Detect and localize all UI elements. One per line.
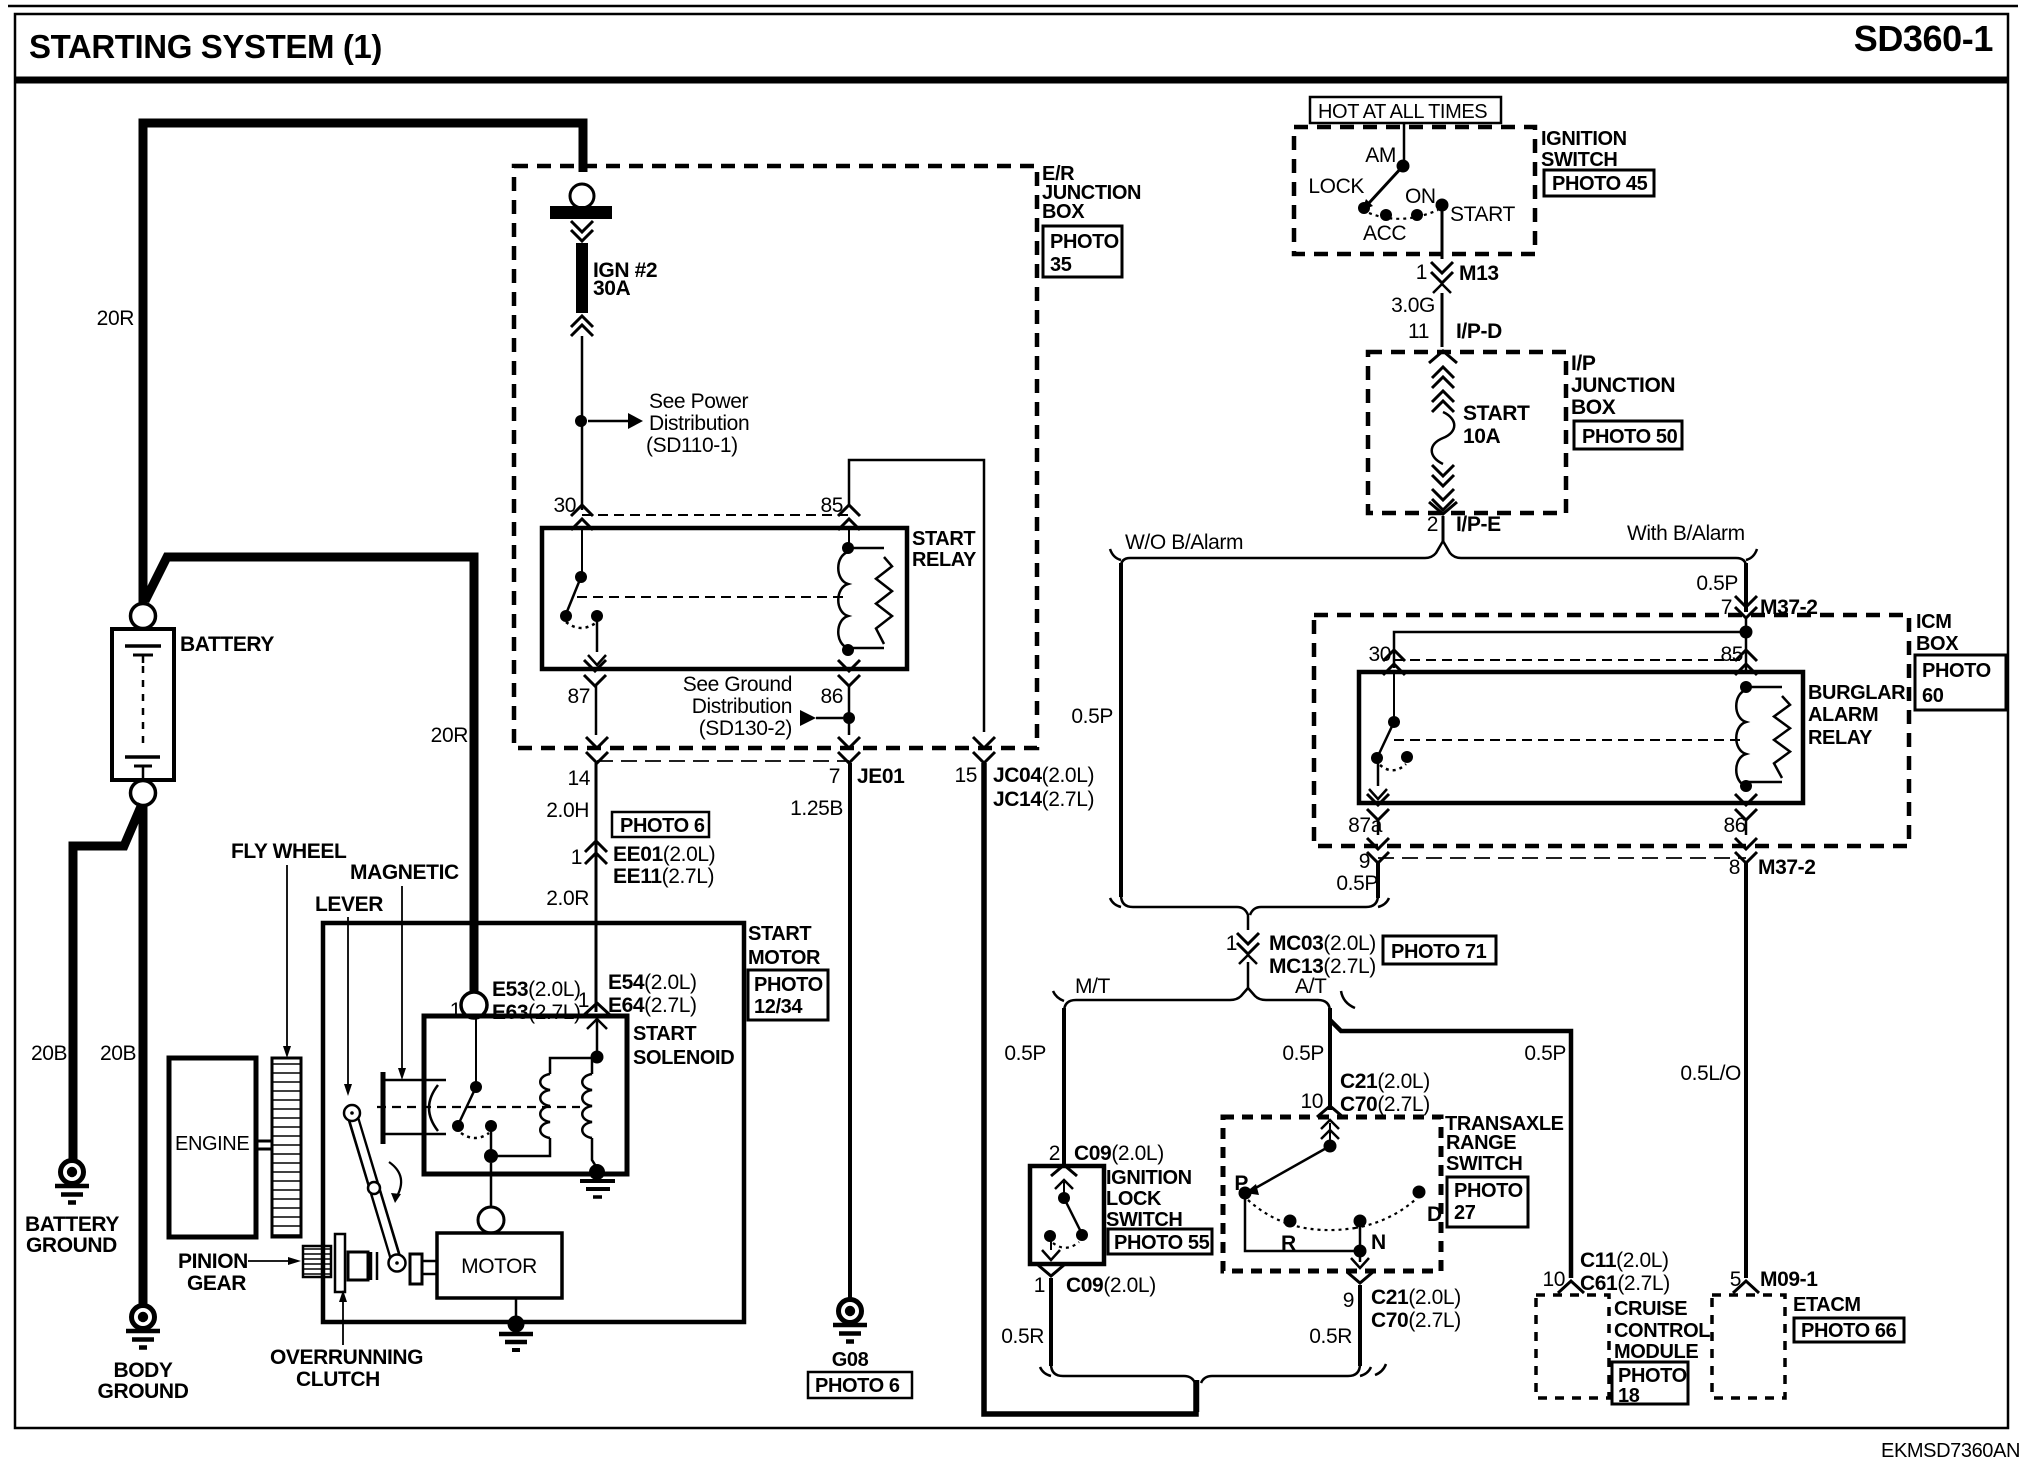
svg-text:86: 86 bbox=[1723, 814, 1746, 837]
svg-text:1: 1 bbox=[1416, 261, 1427, 284]
svg-text:With B/Alarm: With B/Alarm bbox=[1627, 522, 1745, 545]
solenoid switch bbox=[452, 1018, 498, 1163]
wire 20R branch to start solenoid bbox=[145, 557, 474, 995]
svg-text:JC04(2.0L): JC04(2.0L) bbox=[993, 764, 1094, 787]
svg-text:W/O B/Alarm: W/O B/Alarm bbox=[1125, 531, 1243, 554]
burglar relay dashed link top bbox=[1394, 659, 1746, 661]
label FLY WHEEL bbox=[231, 840, 347, 1058]
label E53/E63 bbox=[492, 978, 581, 1024]
label 20R branch bbox=[431, 724, 469, 747]
motor MOTOR box bbox=[437, 1233, 562, 1298]
svg-text:7: 7 bbox=[829, 765, 840, 788]
svg-text:N: N bbox=[1371, 1231, 1386, 1254]
magnetic core bracket bbox=[383, 1072, 446, 1144]
svg-text:(SD130-2): (SD130-2) bbox=[699, 717, 792, 740]
cruise control module box bbox=[1536, 1295, 1609, 1398]
label LEVER bbox=[315, 893, 383, 1096]
ground G08 bbox=[832, 1300, 869, 1372]
svg-text:9: 9 bbox=[1343, 1289, 1354, 1312]
header rule bbox=[15, 77, 2008, 84]
svg-text:SD360-1: SD360-1 bbox=[1854, 18, 1994, 59]
pin 87 start relay bbox=[567, 660, 606, 708]
svg-text:0.5P: 0.5P bbox=[1282, 1042, 1324, 1065]
svg-text:LOCK: LOCK bbox=[1308, 175, 1364, 198]
svg-text:JE01: JE01 bbox=[857, 765, 905, 788]
wire pin 87 to E/R exit bbox=[595, 686, 598, 735]
label 1.25B bbox=[790, 797, 843, 820]
wire solenoid to motor bbox=[478, 1163, 504, 1233]
svg-text:0.5P: 0.5P bbox=[1524, 1042, 1566, 1065]
wire 20B to battery ground bbox=[73, 804, 142, 1159]
svg-text:1: 1 bbox=[1226, 932, 1237, 955]
svg-text:LOCK: LOCK bbox=[1106, 1188, 1162, 1210]
svg-text:1: 1 bbox=[1034, 1274, 1045, 1297]
bottom merge bus M/T A/T return bbox=[1040, 1364, 1386, 1412]
svg-text:RELAY: RELAY bbox=[1808, 727, 1873, 749]
svg-text:C70(2.7L): C70(2.7L) bbox=[1340, 1093, 1430, 1116]
svg-text:MOTOR: MOTOR bbox=[748, 947, 821, 969]
label With B/Alarm bbox=[1627, 522, 1745, 545]
svg-text:PHOTO: PHOTO bbox=[754, 974, 823, 996]
solenoid START SOLENOID box bbox=[424, 1016, 734, 1174]
svg-text:MODULE: MODULE bbox=[1614, 1341, 1698, 1363]
svg-text:RELAY: RELAY bbox=[912, 549, 977, 571]
svg-text:MOTOR: MOTOR bbox=[461, 1255, 537, 1278]
svg-text:2.0H: 2.0H bbox=[546, 799, 589, 822]
svg-text:8: 8 bbox=[1729, 856, 1740, 879]
svg-text:E63(2.7L): E63(2.7L) bbox=[492, 1001, 581, 1024]
svg-text:PHOTO: PHOTO bbox=[1050, 231, 1119, 253]
pin 86 start relay bbox=[820, 660, 860, 708]
svg-text:20R: 20R bbox=[97, 307, 135, 330]
svg-text:SWITCH: SWITCH bbox=[1446, 1153, 1522, 1175]
svg-text:CONTROL: CONTROL bbox=[1614, 1320, 1710, 1342]
burglar relay dashed link middle bbox=[1394, 739, 1742, 741]
svg-text:I/P: I/P bbox=[1571, 352, 1596, 375]
svg-text:GEAR: GEAR bbox=[187, 1272, 246, 1295]
svg-text:35: 35 bbox=[1050, 254, 1072, 276]
svg-text:C70(2.7L): C70(2.7L) bbox=[1371, 1309, 1461, 1332]
wire 87a to icm exit bbox=[1377, 818, 1380, 835]
label M/T bbox=[1075, 975, 1111, 998]
svg-text:Distribution: Distribution bbox=[692, 695, 792, 718]
svg-text:JUNCTION: JUNCTION bbox=[1571, 374, 1675, 397]
svg-text:BODY: BODY bbox=[113, 1359, 172, 1382]
svg-text:BATTERY: BATTERY bbox=[180, 633, 274, 656]
svg-text:0.5P: 0.5P bbox=[1071, 705, 1113, 728]
svg-text:M/T: M/T bbox=[1075, 975, 1111, 998]
relay loop wire pin85 to JC04 drop bbox=[849, 460, 984, 732]
solenoid ground bbox=[580, 1164, 615, 1197]
svg-text:EE11(2.7L): EE11(2.7L) bbox=[613, 865, 714, 888]
svg-text:86: 86 bbox=[820, 685, 843, 708]
pin 30 start relay bbox=[553, 494, 593, 530]
svg-text:C11(2.0L): C11(2.0L) bbox=[1580, 1249, 1669, 1272]
svg-text:CRUISE: CRUISE bbox=[1614, 1298, 1687, 1320]
label box PHOTO 6 lower bbox=[808, 1372, 912, 1398]
svg-text:M09-1: M09-1 bbox=[1760, 1268, 1818, 1291]
svg-text:Distribution: Distribution bbox=[649, 412, 749, 435]
svg-text:ETACM: ETACM bbox=[1793, 1294, 1861, 1316]
connector pin 15 JC04 at E/R bottom bbox=[954, 737, 1094, 811]
svg-text:FLY WHEEL: FLY WHEEL bbox=[231, 840, 347, 863]
svg-text:1: 1 bbox=[578, 989, 589, 1012]
svg-text:BATTERY: BATTERY bbox=[25, 1213, 119, 1236]
burglar relay switch bbox=[1369, 674, 1413, 799]
svg-text:D: D bbox=[1427, 1203, 1442, 1226]
svg-text:E54(2.0L): E54(2.0L) bbox=[608, 971, 697, 994]
node solenoid terminal 1 left bbox=[450, 992, 487, 1022]
svg-text:PHOTO 71: PHOTO 71 bbox=[1391, 941, 1487, 963]
svg-text:2.0R: 2.0R bbox=[546, 887, 589, 910]
svg-text:PHOTO: PHOTO bbox=[1454, 1180, 1523, 1202]
connector 1 M13 bbox=[1416, 261, 1499, 293]
label 20B battery ground bbox=[31, 1042, 67, 1065]
svg-text:14: 14 bbox=[567, 767, 590, 790]
svg-text:SWITCH: SWITCH bbox=[1541, 149, 1617, 171]
svg-text:C21(2.0L): C21(2.0L) bbox=[1340, 1070, 1430, 1093]
wire JC04 return run bbox=[984, 763, 1196, 1414]
svg-text:G08: G08 bbox=[832, 1349, 869, 1371]
motor ground bbox=[499, 1298, 533, 1350]
svg-text:JC14(2.7L): JC14(2.7L) bbox=[993, 788, 1094, 811]
wire 86 to icm exit bbox=[1745, 818, 1748, 835]
label A/T bbox=[1295, 975, 1327, 998]
svg-text:IGNITION: IGNITION bbox=[1106, 1167, 1192, 1189]
svg-text:I/P-D: I/P-D bbox=[1456, 320, 1502, 343]
svg-text:20B: 20B bbox=[100, 1042, 136, 1065]
svg-text:PHOTO: PHOTO bbox=[1618, 1365, 1687, 1387]
ICM box label bbox=[1915, 611, 2006, 710]
lever arm bbox=[344, 1105, 406, 1272]
ETACM label bbox=[1793, 1294, 1904, 1342]
drawing number EKMSD7360AN bbox=[1881, 1440, 2020, 1462]
wire W/O branch 0.5P bbox=[1071, 563, 1121, 897]
node icm rail junction bbox=[1740, 626, 1753, 639]
svg-text:5: 5 bbox=[1730, 1268, 1741, 1291]
wire JE01 1.25B to G08 bbox=[848, 763, 852, 1299]
svg-text:10: 10 bbox=[1542, 1268, 1565, 1291]
svg-text:ICM: ICM bbox=[1916, 611, 1951, 633]
svg-text:20B: 20B bbox=[31, 1042, 67, 1065]
connector 10 C21/C70 top bbox=[1300, 1070, 1429, 1139]
svg-text:SOLENOID: SOLENOID bbox=[633, 1047, 734, 1069]
svg-text:1: 1 bbox=[571, 846, 582, 869]
wire 3.0G bbox=[1391, 293, 1442, 347]
battery BATTERY bbox=[112, 604, 274, 806]
burglar alarm relay label bbox=[1808, 682, 1906, 749]
connector 8 M37-2 at icm bottom bbox=[1729, 838, 1816, 879]
burglar alarm relay box bbox=[1359, 672, 1803, 803]
svg-text:0.5L/O: 0.5L/O bbox=[1680, 1062, 1741, 1085]
svg-text:See Power: See Power bbox=[649, 390, 749, 413]
svg-text:85: 85 bbox=[820, 494, 843, 517]
fuse IGN #2 30A bbox=[550, 184, 657, 336]
svg-text:START: START bbox=[633, 1023, 696, 1045]
label box PHOTO 6 upper bbox=[612, 812, 709, 837]
svg-text:M13: M13 bbox=[1459, 262, 1499, 285]
svg-text:ACC: ACC bbox=[1363, 222, 1406, 245]
svg-text:HOT AT ALL TIMES: HOT AT ALL TIMES bbox=[1318, 101, 1487, 123]
fly wheel gear strip bbox=[256, 1058, 301, 1237]
ignition switch box outline bbox=[1294, 127, 1535, 254]
connector pin 14 at E/R bottom bbox=[567, 737, 608, 790]
svg-text:START: START bbox=[1450, 203, 1515, 226]
svg-text:BOX: BOX bbox=[1916, 633, 1959, 655]
merge bus to MC03 bbox=[1110, 895, 1389, 930]
solenoid hold coil bbox=[582, 1020, 603, 1168]
svg-text:87: 87 bbox=[567, 685, 590, 708]
svg-text:A/T: A/T bbox=[1295, 975, 1327, 998]
svg-text:BURGLAR: BURGLAR bbox=[1808, 682, 1906, 704]
svg-text:START: START bbox=[1463, 402, 1530, 425]
svg-text:ENGINE: ENGINE bbox=[175, 1133, 249, 1155]
label MAGNETIC bbox=[350, 861, 459, 1080]
svg-text:C09(2.0L): C09(2.0L) bbox=[1066, 1274, 1156, 1297]
svg-text:PHOTO 66: PHOTO 66 bbox=[1801, 1320, 1897, 1342]
wire fuse to relay pin 30 bbox=[581, 336, 584, 510]
svg-text:MAGNETIC: MAGNETIC bbox=[350, 861, 459, 884]
svg-text:85: 85 bbox=[1720, 643, 1743, 666]
split bus M/T A/T bbox=[1053, 962, 1355, 1012]
wire With branch 0.5P bbox=[1696, 563, 1746, 612]
connector EE01/EE11 bbox=[571, 841, 716, 888]
pin 85 burglar relay bbox=[1720, 643, 1757, 675]
svg-text:10A: 10A bbox=[1463, 425, 1501, 448]
connector 2 C09 top bbox=[1049, 1142, 1164, 1165]
ignition switch label bbox=[1541, 128, 1654, 196]
ICM box outline bbox=[1314, 615, 1909, 846]
transaxle range switch label bbox=[1445, 1113, 1564, 1227]
transaxle switch internals bbox=[1234, 1123, 1442, 1268]
svg-text:9: 9 bbox=[1359, 850, 1370, 873]
label 2.0H bbox=[546, 799, 589, 822]
svg-text:C09(2.0L): C09(2.0L) bbox=[1074, 1142, 1164, 1165]
wire 0.5R from C09 bbox=[1001, 1278, 1051, 1366]
svg-text:30: 30 bbox=[553, 494, 576, 517]
engine ENGINE box bbox=[169, 1058, 256, 1237]
connector 7 M37-2 bbox=[1721, 596, 1818, 619]
svg-text:CLUTCH: CLUTCH bbox=[296, 1368, 380, 1391]
start motor outer box bbox=[323, 923, 744, 1322]
svg-text:STARTING SYSTEM (1): STARTING SYSTEM (1) bbox=[29, 28, 382, 65]
E/R junction box label bbox=[1042, 163, 1141, 277]
solenoid dashed centerline bbox=[377, 1106, 580, 1108]
svg-text:AM: AM bbox=[1365, 144, 1396, 167]
ground BATTERY GROUND bbox=[25, 1161, 119, 1258]
pin 30 burglar relay bbox=[1368, 643, 1405, 675]
svg-text:11: 11 bbox=[1408, 320, 1429, 343]
svg-text:0.5P: 0.5P bbox=[1336, 872, 1378, 895]
svg-text:C21(2.0L): C21(2.0L) bbox=[1371, 1286, 1461, 1309]
svg-text:60: 60 bbox=[1922, 685, 1944, 707]
ground BODY GROUND bbox=[98, 1306, 189, 1404]
branch bus W/O and With B/Alarm bbox=[1110, 541, 1757, 567]
svg-text:BOX: BOX bbox=[1042, 201, 1085, 223]
svg-text:ALARM: ALARM bbox=[1808, 704, 1878, 726]
svg-text:See Ground: See Ground bbox=[683, 673, 792, 696]
svg-text:E53(2.0L): E53(2.0L) bbox=[492, 978, 581, 1001]
E/R junction box outline bbox=[514, 166, 1037, 748]
pinion gear block bbox=[303, 1246, 331, 1277]
connector 11 I/P-D bbox=[1408, 320, 1502, 343]
pin 85 start relay bbox=[820, 494, 860, 530]
svg-text:RANGE: RANGE bbox=[1446, 1132, 1516, 1154]
connector 9 C21/C70 bottom bbox=[1343, 1272, 1461, 1332]
connector 9 at icm bottom bbox=[1336, 838, 1389, 895]
ignition lock switch box bbox=[1030, 1166, 1104, 1264]
connector 2 I/P-E bbox=[1427, 513, 1501, 541]
svg-text:(SD110-1): (SD110-1) bbox=[646, 434, 738, 457]
svg-text:2: 2 bbox=[1427, 513, 1438, 536]
svg-text:PHOTO 55: PHOTO 55 bbox=[1114, 1232, 1210, 1254]
svg-text:27: 27 bbox=[1454, 1202, 1476, 1224]
fuse START 10A bbox=[1429, 351, 1530, 514]
label W/O B/Alarm bbox=[1125, 531, 1243, 554]
node see-power junction bbox=[575, 415, 587, 427]
svg-text:ON: ON bbox=[1405, 185, 1436, 208]
start relay coil bbox=[838, 530, 892, 656]
svg-text:30: 30 bbox=[1368, 643, 1391, 666]
svg-text:M37-2: M37-2 bbox=[1758, 856, 1816, 879]
svg-text:I/P-E: I/P-E bbox=[1456, 513, 1501, 536]
connector 5 M09-1 bbox=[1730, 1268, 1819, 1293]
svg-text:START: START bbox=[748, 923, 811, 945]
svg-text:0.5R: 0.5R bbox=[1309, 1325, 1352, 1348]
connector 1 MC03/MC13 bbox=[1226, 932, 1376, 978]
dashed connector link 9-8 bbox=[1378, 857, 1746, 859]
node see-ground junction bbox=[843, 712, 855, 724]
title STARTING SYSTEM (1) bbox=[29, 28, 382, 65]
svg-text:IGNITION: IGNITION bbox=[1541, 128, 1627, 150]
svg-text:PHOTO 6: PHOTO 6 bbox=[620, 815, 705, 837]
wire 20B to body ground bbox=[139, 804, 148, 1305]
svg-text:18: 18 bbox=[1618, 1385, 1640, 1407]
ignition switch internals bbox=[1308, 123, 1515, 259]
start relay switch bbox=[560, 530, 606, 665]
connector 1 C09 bottom bbox=[1034, 1265, 1156, 1297]
svg-text:C61(2.7L): C61(2.7L) bbox=[1580, 1272, 1670, 1295]
svg-text:15: 15 bbox=[954, 764, 977, 787]
label E54/E64 bbox=[608, 971, 697, 1017]
svg-text:GROUND: GROUND bbox=[26, 1234, 117, 1257]
svg-text:0.5R: 0.5R bbox=[1001, 1325, 1044, 1348]
svg-text:1.25B: 1.25B bbox=[790, 797, 843, 820]
transaxle range switch box bbox=[1223, 1117, 1441, 1271]
label box PHOTO 71 bbox=[1383, 936, 1496, 964]
svg-text:PHOTO: PHOTO bbox=[1922, 660, 1991, 682]
svg-text:PHOTO 50: PHOTO 50 bbox=[1582, 426, 1678, 448]
HOT AT ALL TIMES box bbox=[1310, 97, 1501, 123]
connector solenoid terminal 1 right bbox=[578, 989, 610, 1029]
label 2.0R bbox=[546, 887, 589, 910]
svg-text:2: 2 bbox=[1049, 1142, 1060, 1165]
label OVERRUNNING CLUTCH bbox=[270, 1290, 423, 1391]
svg-text:GROUND: GROUND bbox=[98, 1380, 189, 1403]
svg-text:PINION: PINION bbox=[178, 1250, 248, 1273]
icm top rail wire bbox=[1394, 618, 1746, 670]
pin 87a burglar relay bbox=[1348, 794, 1389, 837]
svg-text:0.5P: 0.5P bbox=[1696, 572, 1738, 595]
svg-text:OVERRUNNING: OVERRUNNING bbox=[270, 1346, 423, 1369]
wire pin 86 to E/R exit bbox=[848, 686, 851, 735]
ignition lock switch label bbox=[1106, 1167, 1212, 1254]
svg-text:LEVER: LEVER bbox=[315, 893, 383, 916]
wire A/T thick branch to C11 bbox=[1330, 1020, 1571, 1278]
svg-text:20R: 20R bbox=[431, 724, 469, 747]
I/P junction box outline bbox=[1368, 352, 1566, 513]
wire 20R battery feed top run bbox=[143, 123, 583, 612]
dashed connector link 14-7 bbox=[597, 760, 849, 762]
svg-text:P: P bbox=[1234, 1172, 1248, 1195]
label 0.5P right branch bbox=[1524, 1042, 1566, 1065]
svg-text:12/34: 12/34 bbox=[754, 996, 803, 1018]
svg-text:10: 10 bbox=[1300, 1090, 1323, 1113]
svg-text:BOX: BOX bbox=[1571, 396, 1616, 419]
ETACM box bbox=[1712, 1295, 1785, 1398]
svg-text:EKMSD7360AN: EKMSD7360AN bbox=[1881, 1440, 2020, 1462]
wire 87a drop to merge bus bbox=[1376, 862, 1380, 898]
wire A/T down to transaxle switch bbox=[1282, 1008, 1330, 1110]
start relay internal dashed link middle bbox=[577, 596, 845, 598]
see power distribution reference bbox=[588, 390, 749, 457]
overrunning clutch assembly bbox=[335, 1234, 436, 1292]
cruise control module label bbox=[1612, 1298, 1710, 1407]
ignition lock switch internals bbox=[1042, 1165, 1088, 1260]
connector 10 C11/C61 bbox=[1542, 1249, 1669, 1295]
svg-text:3.0G: 3.0G bbox=[1391, 294, 1435, 317]
svg-text:EE01(2.0L): EE01(2.0L) bbox=[613, 843, 715, 866]
start motor label bbox=[748, 923, 828, 1020]
label 20B body ground bbox=[100, 1042, 136, 1065]
svg-text:0.5P: 0.5P bbox=[1004, 1042, 1046, 1065]
relay START RELAY box bbox=[542, 528, 977, 669]
page code SD360-1 bbox=[1854, 18, 1994, 59]
svg-text:START: START bbox=[912, 528, 975, 550]
svg-text:1: 1 bbox=[450, 999, 461, 1022]
see ground distribution reference bbox=[683, 673, 843, 740]
start relay internal dashed link top bbox=[582, 514, 849, 516]
connector pin 7 JE01 at E/R bottom bbox=[829, 737, 905, 788]
solenoid pull-in coil bbox=[491, 1058, 595, 1156]
pin 86 burglar relay bbox=[1723, 794, 1757, 837]
svg-text:MC03(2.0L): MC03(2.0L) bbox=[1269, 932, 1376, 955]
wire M/T 0.5P bbox=[1004, 1008, 1064, 1164]
svg-text:30A: 30A bbox=[593, 277, 631, 300]
svg-text:PHOTO 45: PHOTO 45 bbox=[1552, 173, 1648, 195]
wire 0.5R from C21 bbox=[1309, 1285, 1360, 1366]
label 20R bbox=[97, 307, 135, 330]
burglar relay coil bbox=[1736, 681, 1790, 792]
wire 2.0H / 2.0R to solenoid bbox=[595, 763, 598, 1012]
label PINION GEAR bbox=[178, 1250, 301, 1295]
wire M37-2 0.5L/O to ETACM bbox=[1680, 862, 1746, 1278]
I/P junction box label bbox=[1571, 352, 1682, 449]
svg-text:PHOTO 6: PHOTO 6 bbox=[815, 1375, 900, 1397]
